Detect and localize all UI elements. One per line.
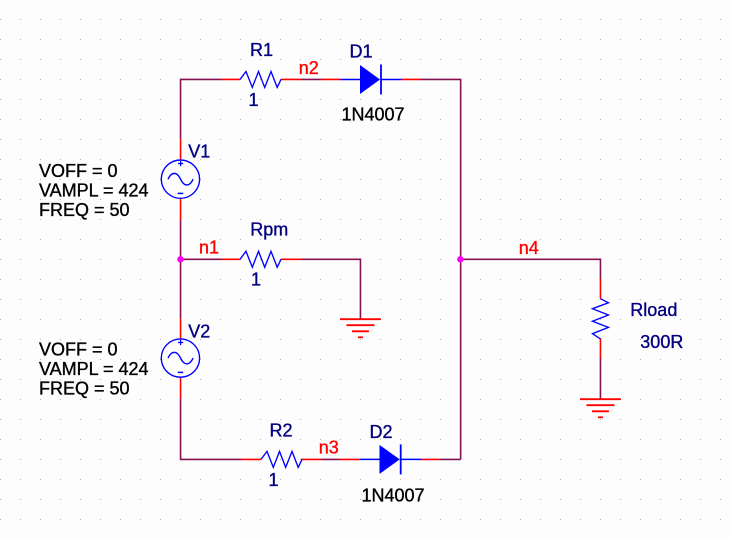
svg-text:1: 1 [251,270,261,290]
svg-text:FREQ = 50: FREQ = 50 [39,200,130,220]
svg-text:D1: D1 [350,42,373,62]
svg-text:1: 1 [269,470,279,490]
svg-text:Rpm: Rpm [250,220,288,240]
svg-text:n3: n3 [319,438,339,458]
svg-text:VOFF = 0: VOFF = 0 [39,340,118,360]
svg-text:FREQ = 50: FREQ = 50 [39,379,130,399]
svg-text:VOFF = 0: VOFF = 0 [39,161,118,181]
svg-text:300R: 300R [640,332,683,352]
svg-text:V1: V1 [188,142,210,162]
svg-text:1N4007: 1N4007 [362,486,425,506]
svg-text:V2: V2 [188,322,210,342]
svg-text:n2: n2 [299,58,319,78]
svg-text:R2: R2 [270,421,293,441]
svg-text:1N4007: 1N4007 [342,105,405,125]
svg-text:VAMPL = 424: VAMPL = 424 [39,359,149,379]
svg-text:Rload: Rload [630,300,677,320]
svg-text:R1: R1 [250,40,273,60]
svg-text:1: 1 [249,90,259,110]
svg-text:VAMPL = 424: VAMPL = 424 [39,181,149,201]
svg-text:D2: D2 [370,422,393,442]
svg-text:n4: n4 [519,238,539,258]
svg-text:n1: n1 [199,238,219,258]
